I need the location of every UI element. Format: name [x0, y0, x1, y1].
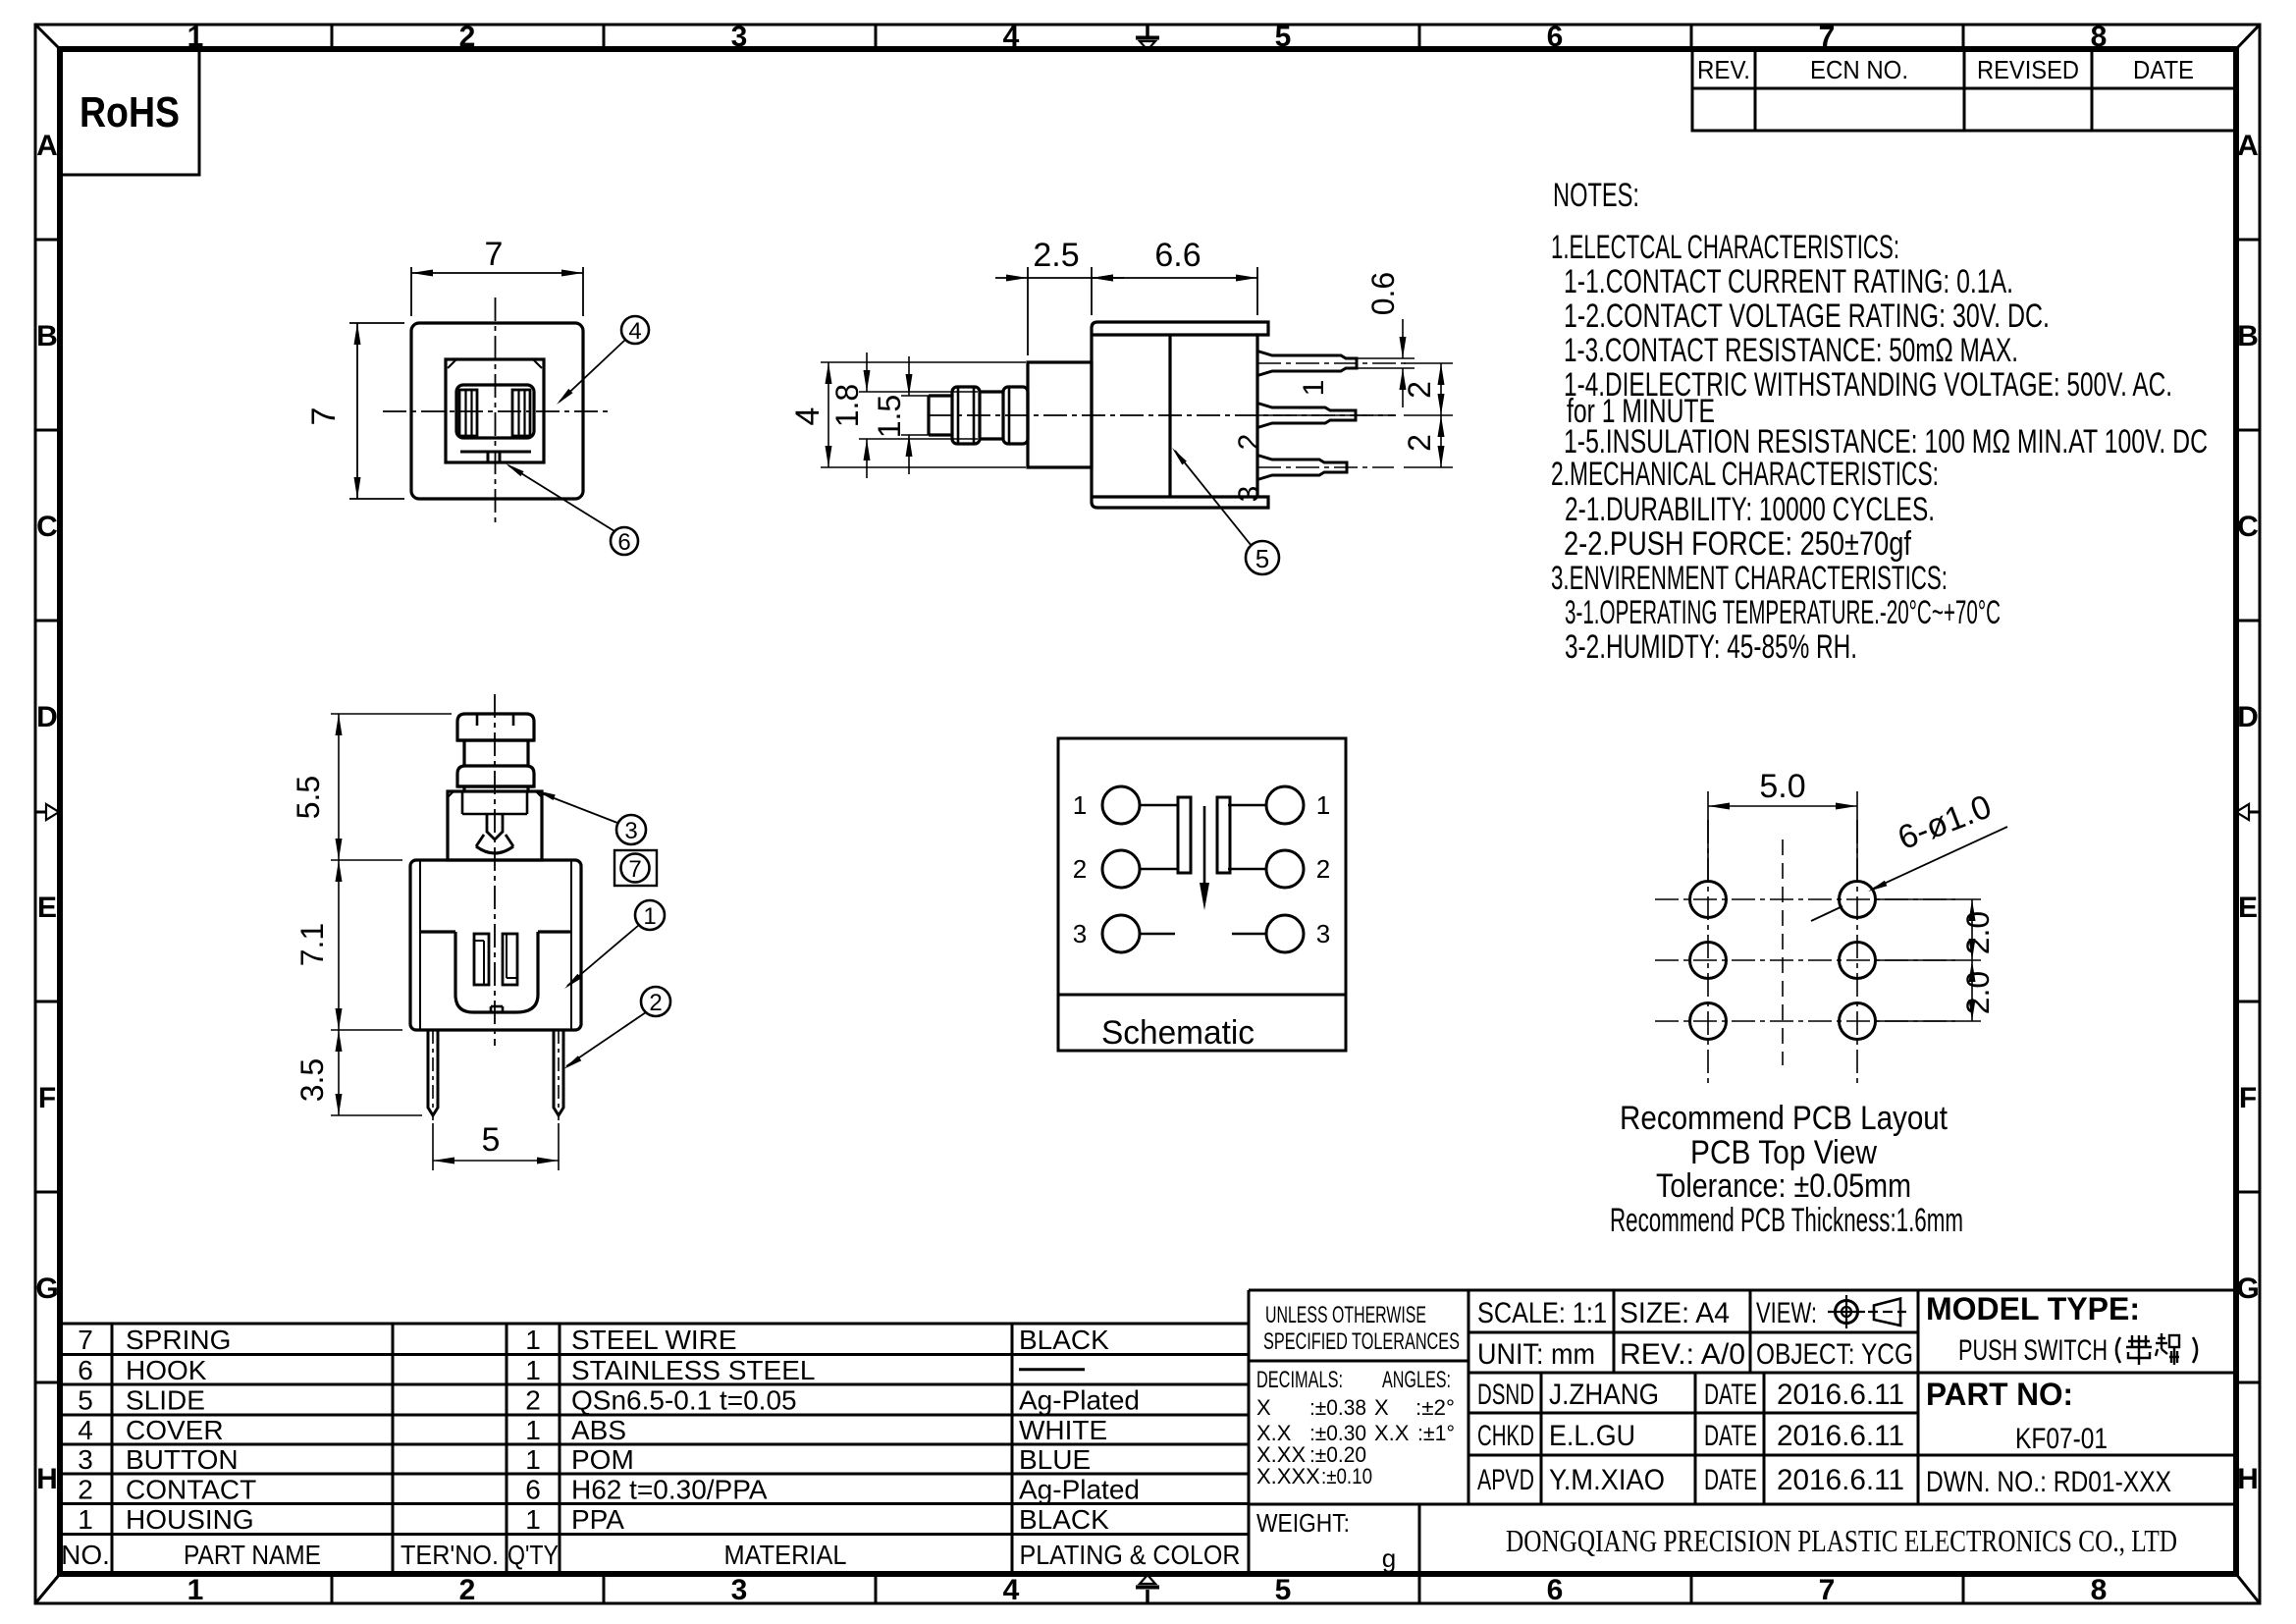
svg-text:SIZE: A4: SIZE: A4 [1620, 1297, 1730, 1329]
svg-text:MATERIAL: MATERIAL [724, 1540, 847, 1570]
top view bottom slot tab [460, 451, 531, 454]
balloon label 3 [616, 815, 646, 844]
svg-text:1.5: 1.5 [872, 395, 907, 438]
svg-text:X: X [1374, 1395, 1389, 1420]
svg-text:3: 3 [1316, 919, 1330, 948]
svg-text:QSn6.5-0.1 t=0.05: QSn6.5-0.1 t=0.05 [571, 1385, 797, 1416]
svg-text:1-3.CONTACT RESISTANCE: 50mΩ: 1-3.CONTACT RESISTANCE: 50mΩ MAX. [1564, 332, 2018, 369]
sheet centering mark left [36, 811, 45, 814]
svg-text:2016.6.11: 2016.6.11 [1777, 1379, 1904, 1411]
schematic contact bars [1178, 797, 1191, 873]
svg-text:RoHS: RoHS [80, 88, 180, 136]
side view plunger stem box [1028, 362, 1092, 467]
svg-text:1-1.CONTACT CURRENT RATING:: 1-1.CONTACT CURRENT RATING: 0.1A. [1564, 263, 2013, 300]
svg-text:2: 2 [1233, 434, 1265, 451]
svg-text:B: B [2237, 320, 2259, 352]
schematic wire row 3 left stub [1140, 933, 1175, 936]
svg-text:1: 1 [525, 1325, 541, 1355]
svg-text:G: G [2236, 1272, 2259, 1305]
svg-text:3-2.HUMIDTY: 45-85% RH.: 3-2.HUMIDTY: 45-85% RH. [1565, 628, 1857, 666]
svg-text:7: 7 [78, 1325, 93, 1355]
pcb layout dimension 5.0 [1707, 791, 1709, 882]
svg-text:4: 4 [78, 1415, 93, 1445]
svg-text:1.8: 1.8 [829, 384, 865, 427]
sheet centering mark right [2250, 811, 2259, 814]
svg-text:g: g [1382, 1543, 1396, 1573]
svg-text:CHKD: CHKD [1477, 1420, 1534, 1452]
svg-text:2-1.DURABILITY: 10000 CYCLES: 2-1.DURABILITY: 10000 CYCLES. [1565, 491, 1935, 528]
zone ticks left and right [35, 239, 60, 242]
svg-text:ABS: ABS [571, 1415, 626, 1445]
svg-text:2: 2 [78, 1474, 93, 1504]
side view dimension 6.6 [1256, 267, 1258, 315]
svg-text:5: 5 [78, 1385, 93, 1416]
side view pin pitch dimensions 2 and 2 [1404, 362, 1453, 364]
svg-text:7: 7 [305, 407, 343, 426]
pcb layout middle dashed line [1782, 839, 1784, 1065]
top view cover window [446, 359, 544, 462]
side view dimension 1.5 [901, 395, 950, 397]
svg-text:F: F [38, 1082, 56, 1114]
schematic wire row 1 left [1140, 804, 1179, 807]
svg-text:E.L.GU: E.L.GU [1549, 1420, 1635, 1452]
svg-text:2-2.PUSH FORCE: 250±70gf: 2-2.PUSH FORCE: 250±70gf [1564, 525, 1911, 563]
svg-text:STEEL WIRE: STEEL WIRE [571, 1325, 737, 1355]
front view button ring [457, 766, 534, 786]
svg-text:4: 4 [628, 318, 641, 345]
front view center line [494, 694, 496, 1046]
svg-text:5: 5 [482, 1121, 501, 1159]
view symbol target [1836, 1301, 1858, 1324]
svg-text:Ag-Plated: Ag-Plated [1019, 1385, 1140, 1416]
pcb layout dimensions 2.0 2.0 [1876, 898, 1981, 900]
svg-text:DSND: DSND [1477, 1379, 1534, 1411]
svg-text:3: 3 [624, 818, 637, 844]
svg-text:CONTACT: CONTACT [126, 1474, 256, 1504]
top view center line horizontal [383, 410, 611, 412]
balloon label 7 boxed [614, 850, 657, 886]
title block tolerance box [1249, 1289, 2236, 1292]
svg-text:HOOK: HOOK [126, 1355, 207, 1385]
svg-text:TER'NO.: TER'NO. [400, 1540, 499, 1570]
svg-text:3: 3 [1073, 919, 1087, 948]
svg-text:3-1.OPERATING TEMPERATURE.-20: 3-1.OPERATING TEMPERATURE.-20°C~+70°C [1565, 594, 2001, 631]
svg-text:DECIMALS:: DECIMALS: [1256, 1367, 1343, 1393]
svg-text:C: C [36, 511, 58, 543]
svg-text:1: 1 [187, 1574, 204, 1606]
svg-text:COVER: COVER [126, 1415, 224, 1445]
svg-text:BLACK: BLACK [1019, 1325, 1109, 1355]
svg-text:VIEW:: VIEW: [1756, 1297, 1817, 1329]
front view contact windows [474, 934, 489, 985]
schematic box [1058, 738, 1346, 1051]
svg-text:2: 2 [1316, 854, 1330, 884]
side view pin 3 [1257, 456, 1347, 480]
side view plunger neck [980, 390, 1003, 393]
svg-text:X.XXX: X.XXX [1256, 1464, 1320, 1489]
svg-text:STAINLESS STEEL: STAINLESS STEEL [571, 1355, 815, 1385]
svg-text:Ag-Plated: Ag-Plated [1019, 1474, 1140, 1504]
svg-text:H: H [2237, 1463, 2259, 1495]
svg-text:1: 1 [525, 1415, 541, 1445]
balloon label 5 [1246, 541, 1279, 574]
svg-text:UNIT: mm: UNIT: mm [1477, 1338, 1595, 1371]
svg-text:3: 3 [1233, 486, 1265, 503]
top view center line vertical [495, 298, 497, 525]
svg-text:4: 4 [789, 407, 827, 426]
side view housing body [1092, 322, 1268, 508]
schematic wire row 3 right stub [1232, 933, 1266, 936]
svg-text:1: 1 [78, 1504, 93, 1535]
schematic terminal circles right [1266, 786, 1304, 824]
side view plunger tip shaft [929, 394, 952, 397]
svg-text:ANGLES:: ANGLES: [1382, 1367, 1451, 1393]
svg-text:C: C [2237, 511, 2259, 543]
RoHS box [60, 49, 199, 175]
balloon label 2 [641, 987, 670, 1016]
title block scale row [1613, 1290, 1616, 1373]
svg-text:SLIDE: SLIDE [126, 1385, 205, 1416]
side view center line [929, 414, 1396, 416]
svg-text:PPA: PPA [571, 1504, 624, 1535]
svg-text:2: 2 [525, 1385, 541, 1416]
svg-text:D: D [36, 701, 58, 733]
svg-text:PLATING & COLOR: PLATING & COLOR [1020, 1540, 1241, 1570]
side view plunger knob ring [952, 387, 980, 444]
svg-text:Q'TY: Q'TY [507, 1540, 559, 1570]
svg-text:X: X [1256, 1395, 1271, 1420]
side view pin 1 [1257, 352, 1357, 376]
svg-text:D: D [2237, 701, 2259, 733]
svg-text:2: 2 [1402, 434, 1437, 452]
svg-text:6: 6 [78, 1355, 93, 1385]
revision table frame [1692, 49, 2236, 131]
svg-text:4: 4 [1003, 1574, 1020, 1606]
svg-text:7: 7 [1819, 1574, 1836, 1606]
top view button [456, 385, 534, 438]
svg-text:SCALE: 1:1: SCALE: 1:1 [1477, 1297, 1607, 1329]
svg-text:F: F [2239, 1082, 2257, 1114]
svg-text:2: 2 [459, 21, 476, 53]
svg-text:5: 5 [1275, 21, 1292, 53]
balloon label 1 [635, 900, 665, 930]
svg-text:BLUE: BLUE [1019, 1444, 1091, 1475]
parts table frame [60, 1323, 1249, 1326]
svg-text:1: 1 [1316, 790, 1330, 820]
corner trim diagonals [35, 25, 60, 49]
svg-text:2: 2 [1402, 381, 1437, 399]
schematic terminal circles left [1102, 786, 1140, 824]
front view housing pocket [420, 930, 455, 933]
svg-text:1: 1 [525, 1355, 541, 1385]
svg-text:A: A [36, 130, 58, 162]
zone ticks top and bottom [331, 25, 334, 49]
front view dimension 5.5 [331, 713, 452, 715]
svg-text:H: H [36, 1463, 58, 1495]
svg-text:Recommend PCB Thickness:1.6m: Recommend PCB Thickness:1.6mm [1610, 1202, 1963, 1239]
svg-text:PART NO:: PART NO: [1926, 1377, 2073, 1412]
svg-text:B: B [36, 320, 58, 352]
svg-text:2.MECHANICAL CHARACTERISTICS:: 2.MECHANICAL CHARACTERISTICS: [1551, 456, 1939, 493]
svg-text:2: 2 [1073, 854, 1087, 884]
svg-text:H62 t=0.30/PPA: H62 t=0.30/PPA [571, 1474, 768, 1504]
svg-text:5.0: 5.0 [1759, 768, 1805, 805]
svg-text:8: 8 [2091, 1574, 2108, 1606]
balloon label 4 [621, 316, 649, 344]
svg-text:6: 6 [617, 529, 630, 556]
side view pin 2 [1257, 404, 1356, 428]
svg-text:G: G [35, 1272, 58, 1305]
svg-text:6: 6 [1547, 1574, 1564, 1606]
svg-text:WHITE: WHITE [1019, 1415, 1107, 1445]
svg-text:NOTES:: NOTES: [1553, 177, 1639, 214]
side view plunger second ridge [1003, 387, 1028, 444]
svg-text:NO.: NO. [61, 1540, 110, 1570]
svg-text:WEIGHT:: WEIGHT: [1256, 1508, 1350, 1538]
weight box [1418, 1504, 1421, 1574]
front view button waist [462, 740, 465, 766]
svg-text:DATE: DATE [1704, 1464, 1757, 1496]
svg-text:2: 2 [459, 1574, 476, 1606]
side view dimension 4 [821, 361, 1026, 363]
front view housing body [410, 860, 581, 1030]
pcb layout holes 6x [1690, 882, 1727, 918]
svg-text:7: 7 [485, 236, 504, 273]
svg-text:2.0: 2.0 [1960, 971, 1996, 1014]
svg-text:Y.M.XIAO: Y.M.XIAO [1549, 1464, 1665, 1496]
svg-text:DATE: DATE [2133, 55, 2194, 84]
svg-text:1-2.CONTACT VOLTAGE RATING:: 1-2.CONTACT VOLTAGE RATING: 30V. DC. [1564, 298, 2050, 335]
front view dimension 5 [432, 1123, 434, 1170]
top view dimension 7 horizontal [410, 267, 412, 316]
top view dimension 7 vertical [349, 322, 404, 324]
front view hook detail [487, 814, 503, 839]
front view dimension 3.5 [331, 1114, 422, 1116]
svg-text:BLACK: BLACK [1019, 1504, 1109, 1535]
svg-text:E: E [2238, 892, 2258, 924]
svg-text:DATE: DATE [1704, 1420, 1757, 1452]
svg-text:DONGQIANG PRECISION PLASTIC: DONGQIANG PRECISION PLASTIC ELECTRONICS … [1506, 1523, 2177, 1558]
svg-text:J.ZHANG: J.ZHANG [1549, 1379, 1659, 1411]
front view dimension 7.1 [331, 1029, 402, 1031]
svg-text:REVISED: REVISED [1977, 55, 2079, 84]
svg-text:4: 4 [1003, 21, 1020, 53]
top view housing outline 7x7 [411, 323, 583, 499]
pcb layout hole center lines horizontal [1655, 898, 1955, 900]
svg-text:1: 1 [525, 1504, 541, 1535]
svg-text:3.5: 3.5 [294, 1058, 330, 1102]
svg-text:1: 1 [525, 1444, 541, 1475]
svg-text:2.5: 2.5 [1033, 237, 1079, 274]
front view cover boss [448, 791, 542, 860]
svg-text:KF07-01: KF07-01 [2015, 1423, 2108, 1455]
front view pocket center tab [490, 1006, 493, 1012]
sheet centering mark bottom [1146, 1590, 1149, 1602]
svg-text:BUTTON: BUTTON [126, 1444, 239, 1475]
side view dimension 2.5 [1027, 267, 1029, 355]
svg-text:OBJECT: YCG: OBJECT: YCG [1756, 1338, 1913, 1371]
balloon label 6 [611, 527, 638, 555]
svg-text:DWN. NO.: RD01-XXX: DWN. NO.: RD01-XXX [1926, 1466, 2171, 1498]
svg-text:PCB Top View: PCB Top View [1690, 1134, 1877, 1171]
sheet centering mark top [1146, 26, 1149, 36]
svg-text:DATE: DATE [1704, 1379, 1757, 1411]
svg-text:3.ENVIRENMENT CHARACTERISTICS: 3.ENVIRENMENT CHARACTERISTICS: [1551, 560, 1948, 597]
svg-text:POM: POM [571, 1444, 634, 1475]
svg-text:6.6: 6.6 [1154, 237, 1201, 274]
svg-text:Schematic: Schematic [1101, 1014, 1255, 1052]
svg-text:7.1: 7.1 [294, 923, 330, 966]
front view pin right [554, 1030, 563, 1115]
svg-text:UNLESS OTHERWISE: UNLESS OTHERWISE [1265, 1302, 1426, 1328]
svg-text:1: 1 [643, 903, 656, 930]
svg-text:APVD: APVD [1477, 1464, 1534, 1496]
svg-text::±0.10: :±0.10 [1321, 1464, 1372, 1489]
schematic wire row 2 right [1228, 868, 1266, 871]
svg-text:2016.6.11: 2016.6.11 [1777, 1420, 1904, 1452]
title block signature rows [1540, 1373, 1543, 1504]
svg-text:2.0: 2.0 [1960, 911, 1996, 954]
svg-text:SPECIFIED TOLERANCES: SPECIFIED TOLERANCES [1263, 1328, 1460, 1355]
svg-text:6: 6 [1547, 21, 1564, 53]
side view dimension 1.8 [859, 391, 978, 393]
svg-text:2016.6.11: 2016.6.11 [1777, 1464, 1904, 1496]
svg-text:PART NAME: PART NAME [184, 1540, 321, 1570]
svg-text:REV.: REV. [1697, 55, 1750, 84]
front view button stem [462, 786, 465, 791]
svg-text::±1°: :±1° [1417, 1421, 1455, 1445]
side view dimension 0.6 [1357, 357, 1415, 359]
schematic actuation arrow [1203, 806, 1206, 886]
svg-text:HOUSING: HOUSING [126, 1504, 254, 1535]
svg-text:A: A [2237, 130, 2259, 162]
side view cover/housing divider line [1168, 335, 1171, 497]
svg-text:ECN NO.: ECN NO. [1810, 55, 1908, 84]
svg-text:X.X: X.X [1374, 1421, 1410, 1445]
svg-text:1.ELECTCAL CHARACTERISTICS:: 1.ELECTCAL CHARACTERISTICS: [1551, 229, 1899, 266]
svg-text::±2°: :±2° [1415, 1395, 1455, 1420]
svg-text:6: 6 [525, 1474, 541, 1504]
front view pin left [428, 1030, 438, 1115]
svg-text:PUSH SWITCH: PUSH SWITCH [1958, 1334, 2108, 1367]
svg-text:3: 3 [78, 1444, 93, 1475]
front view button cap [457, 714, 534, 740]
svg-text:SPRING: SPRING [126, 1325, 231, 1355]
pcb layout hole center lines vertical [1707, 820, 1709, 1086]
svg-text:5.5: 5.5 [291, 776, 326, 819]
svg-text:0.6: 0.6 [1365, 272, 1401, 315]
chinese annotation dai suo in parens [2116, 1337, 2120, 1363]
view symbol cone [1874, 1299, 1900, 1326]
svg-text:3: 3 [731, 1574, 748, 1606]
svg-text:1: 1 [1073, 790, 1087, 820]
svg-text:2: 2 [649, 990, 662, 1016]
svg-text:Tolerance: ±0.05mm: Tolerance: ±0.05mm [1656, 1167, 1911, 1205]
svg-text:MODEL TYPE:: MODEL TYPE: [1926, 1291, 2140, 1326]
svg-text:E: E [37, 892, 57, 924]
svg-text:7: 7 [628, 856, 641, 883]
schematic wire row 2 left [1140, 868, 1179, 871]
svg-text:3: 3 [731, 21, 748, 53]
svg-text:REV.: A/0: REV.: A/0 [1620, 1338, 1745, 1371]
schematic wire row 1 right [1228, 804, 1266, 807]
svg-text:1: 1 [1298, 380, 1330, 397]
svg-text::±0.38: :±0.38 [1309, 1395, 1366, 1420]
svg-text:5: 5 [1255, 544, 1269, 573]
svg-text:Recommend PCB Layout: Recommend PCB Layout [1620, 1100, 1948, 1137]
svg-text:5: 5 [1275, 1574, 1292, 1606]
